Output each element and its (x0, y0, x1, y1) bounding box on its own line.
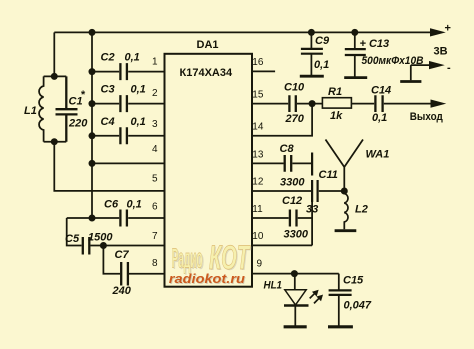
capacitor C14 (375, 95, 382, 112)
svg-text:240: 240 (112, 285, 132, 297)
capacitor C2 (92, 63, 165, 80)
antenna WA1 (326, 140, 364, 192)
node L1C1 top junction (51, 73, 58, 80)
resistor R1 (322, 98, 351, 108)
ground L2 (335, 229, 357, 232)
svg-text:Выход: Выход (410, 111, 443, 123)
wire pin 4 row (92, 162, 165, 164)
ground minus terminal (400, 80, 421, 83)
svg-text:14: 14 (252, 122, 264, 133)
svg-text:R1: R1 (328, 86, 342, 98)
capacitor C7 (121, 262, 128, 286)
svg-text:+: + (445, 22, 451, 34)
capacitor C3 (92, 95, 165, 112)
pin 11 wire (252, 217, 289, 219)
node rail B row1 (89, 68, 96, 75)
wire rail B vertical (91, 32, 93, 218)
wire rail A lower to pin 5 (54, 142, 164, 191)
svg-text:270: 270 (285, 113, 305, 125)
arrow plus supply (431, 29, 444, 36)
svg-text:C12: C12 (282, 195, 302, 207)
node rail B row2 (89, 100, 96, 107)
svg-text:12: 12 (252, 176, 264, 187)
svg-text:33: 33 (306, 204, 318, 216)
wire junction down to C7 (103, 246, 120, 274)
capacitor C11 left plate (311, 180, 313, 202)
svg-text:DA1: DA1 (197, 39, 219, 51)
node C9 top (308, 29, 315, 36)
svg-text:220: 220 (68, 118, 88, 130)
svg-text:11: 11 (252, 204, 263, 215)
capacitor C15 (329, 274, 352, 326)
capacitor C12 (290, 210, 297, 227)
node rail B row6 (89, 215, 96, 222)
ground C15 (328, 325, 353, 328)
wire long riser x312 (311, 153, 313, 176)
svg-text:3300: 3300 (284, 229, 309, 241)
svg-text:1500: 1500 (88, 231, 113, 243)
svg-text:HL1: HL1 (264, 279, 283, 291)
capacitor C4 (92, 127, 165, 144)
pin 10 wire (252, 244, 312, 246)
svg-text:3300: 3300 (280, 177, 305, 189)
svg-text:0,1: 0,1 (314, 59, 329, 71)
watermark Радио КОТ (172, 239, 253, 278)
capacitor C13 electrolytic (345, 32, 366, 77)
svg-text:6: 6 (152, 202, 158, 213)
wire C14 to output arrow (384, 103, 433, 105)
wire C10 to R1 (297, 103, 322, 105)
ground C13 (344, 76, 367, 79)
node rail B row3 (89, 132, 96, 139)
wire C11 to antenna node (319, 190, 345, 192)
svg-text:radiokot.ru: radiokot.ru (169, 272, 245, 286)
wire C6 row down to C5 (67, 218, 82, 246)
node antenna junction (341, 188, 348, 195)
svg-text:0,1: 0,1 (372, 112, 387, 124)
capacitor C10 (289, 95, 295, 112)
svg-text:WA1: WA1 (366, 149, 390, 161)
svg-text:9: 9 (257, 259, 263, 270)
svg-text:500мкФх10В: 500мкФх10В (362, 55, 424, 67)
svg-text:C11: C11 (319, 169, 338, 181)
node L1C1 bottom junction (51, 138, 58, 145)
svg-text:C6: C6 (104, 199, 119, 211)
pin 15 wire (252, 103, 288, 105)
LED HL1 (284, 274, 309, 326)
svg-text:0,1: 0,1 (131, 84, 146, 96)
node pin9 HL1 junction (291, 270, 298, 277)
svg-text:C8: C8 (280, 143, 295, 155)
arrow minus supply (430, 62, 443, 69)
capacitor C9 (301, 32, 323, 75)
pin 13 wire (252, 162, 284, 164)
svg-text:3: 3 (152, 119, 158, 130)
pin 9 wire (252, 273, 339, 275)
wire C5 to pin 7 (91, 245, 165, 247)
svg-text:15: 15 (252, 90, 264, 101)
svg-text:0,1: 0,1 (127, 199, 142, 211)
svg-text:C14: C14 (371, 85, 391, 97)
svg-text:0,047: 0,047 (344, 300, 372, 312)
svg-text:C2: C2 (101, 52, 115, 64)
LED HL1 arrows (310, 291, 323, 304)
svg-text:2: 2 (152, 88, 158, 99)
svg-text:13: 13 (252, 149, 264, 160)
IC DA1 К174ХА34 box (165, 54, 253, 287)
svg-text:4: 4 (152, 144, 158, 155)
ground HL1 (284, 325, 307, 328)
capacitor C6 (67, 210, 165, 227)
svg-text:8: 8 (152, 258, 158, 269)
wire rail A upper (to L1C1 top) (53, 32, 55, 76)
svg-text:*: * (81, 89, 86, 101)
svg-text:3В: 3В (434, 46, 448, 58)
svg-text:7: 7 (152, 231, 158, 242)
capacitor C11 right plate (317, 180, 319, 202)
inductor L1 (39, 76, 44, 141)
svg-text:1k: 1k (330, 110, 343, 122)
ground C9 (300, 75, 324, 78)
capacitor C8 (285, 155, 292, 172)
svg-text:16: 16 (252, 57, 264, 68)
svg-text:1: 1 (152, 57, 158, 68)
svg-text:10: 10 (252, 231, 264, 242)
wire C7 to pin 8 (129, 273, 165, 275)
wire R1 to C14 (351, 103, 374, 105)
svg-text:C9: C9 (315, 35, 330, 47)
svg-text:C5: C5 (65, 233, 80, 245)
inductor L2 (344, 191, 348, 229)
arrow output (431, 100, 444, 107)
node C5 C7 junction (100, 242, 107, 249)
capacitor C5 (83, 237, 90, 255)
svg-text:C3: C3 (101, 84, 115, 96)
svg-text:5: 5 (152, 174, 158, 185)
svg-text:Радио: Радио (172, 243, 203, 274)
svg-text:C7: C7 (115, 249, 130, 261)
pin 12 wire (252, 190, 311, 192)
svg-text:C10: C10 (284, 82, 305, 94)
wire top supply rail (54, 31, 431, 33)
svg-text:L2: L2 (355, 204, 368, 216)
wire pin14 riser (252, 104, 312, 136)
svg-text:+ С13: + С13 (360, 38, 390, 50)
capacitor C1 (56, 76, 78, 141)
svg-text:L1: L1 (24, 105, 37, 117)
svg-text:C15: C15 (343, 275, 364, 287)
node rail B top (89, 29, 96, 36)
svg-text:-: - (447, 62, 451, 74)
watermark radiokot.ru (169, 272, 246, 287)
pin 16 stub (252, 70, 275, 72)
svg-text:К174ХА34: К174ХА34 (180, 67, 233, 79)
svg-text:C4: C4 (101, 116, 115, 128)
node C13 top (351, 29, 358, 36)
wire C12 to riser (298, 217, 312, 219)
wire minus terminal (411, 65, 432, 80)
node C10 R1 junction (309, 100, 316, 107)
wire C8 to riser (292, 162, 312, 164)
svg-text:0,1: 0,1 (131, 116, 146, 128)
svg-text:0,1: 0,1 (125, 52, 140, 64)
node rail B row4 (89, 160, 96, 167)
